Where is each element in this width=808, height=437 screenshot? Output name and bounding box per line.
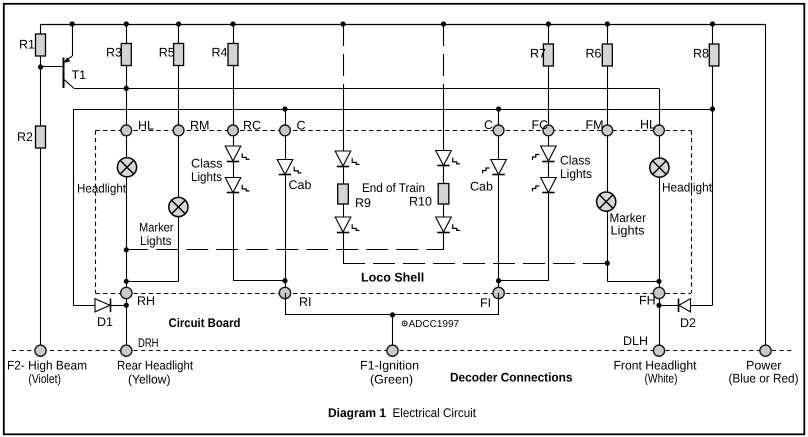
terminal C xyxy=(493,125,504,136)
svg-text:(Yellow): (Yellow) xyxy=(128,372,171,386)
svg-text:Power: Power xyxy=(746,359,781,373)
wire R1-R2-F2 column xyxy=(40,24,42,346)
label Headlight left xyxy=(77,181,126,195)
terminal RC xyxy=(228,125,239,136)
label R8 xyxy=(693,47,709,61)
lamp Marker Lights left xyxy=(169,197,188,216)
node FH top junction xyxy=(656,279,661,284)
terminal FC xyxy=(543,125,554,136)
terminal Power xyxy=(760,345,771,356)
svg-text:Class: Class xyxy=(191,157,223,171)
wire end-of-train left column xyxy=(343,24,345,263)
svg-text:R1: R1 xyxy=(19,38,35,52)
wire RI-FI link to F1 xyxy=(285,293,499,346)
label R6 xyxy=(586,47,602,61)
node EOT left top junction xyxy=(340,21,345,26)
LED class lights right upper xyxy=(533,146,557,162)
terminal FH xyxy=(653,287,664,298)
resistor R5 xyxy=(174,44,184,66)
label Cab left xyxy=(289,178,312,192)
svg-text:HL: HL xyxy=(138,118,154,132)
label R7 xyxy=(530,47,546,61)
svg-text:(White): (White) xyxy=(645,372,678,386)
svg-text:RM: RM xyxy=(190,118,209,132)
label R9 xyxy=(355,196,371,210)
svg-text:(Green): (Green) xyxy=(370,372,413,386)
label RH xyxy=(137,294,155,308)
label R5 xyxy=(159,46,175,60)
node R8 third bus junction xyxy=(710,106,715,111)
svg-text:D1: D1 xyxy=(97,315,113,329)
wire T1 base xyxy=(41,66,63,68)
labels top terminals right xyxy=(484,118,656,133)
svg-text:(Blue or Red): (Blue or Red) xyxy=(729,372,799,386)
terminal F1 xyxy=(387,345,398,356)
wire dashed link RH to EOT right xyxy=(126,249,443,251)
svg-text:R7: R7 xyxy=(530,47,546,61)
node D2-FH junction xyxy=(656,303,661,308)
resistor R6 xyxy=(602,44,612,66)
svg-text:T1: T1 xyxy=(72,68,87,82)
node D1-RH junction xyxy=(124,303,129,308)
node R3 second-bus junction xyxy=(124,86,129,91)
LED cab left xyxy=(277,160,301,175)
resistor R3 xyxy=(121,44,131,66)
wire R7 column xyxy=(548,24,550,130)
node T1 emitter on bus xyxy=(70,21,75,26)
svg-text:C: C xyxy=(297,118,306,132)
terminal FI xyxy=(493,287,504,298)
svg-text:RI: RI xyxy=(299,295,312,309)
terminal DRH xyxy=(121,345,132,356)
node R5 top junction xyxy=(176,21,181,26)
wire R6 column xyxy=(607,24,609,130)
resistor R1 xyxy=(36,34,46,56)
label R4 xyxy=(212,46,228,60)
wire cab right column xyxy=(498,109,500,293)
node FI top junction xyxy=(496,278,501,283)
label R1 xyxy=(19,38,35,52)
wire R5 column xyxy=(178,24,180,130)
terminal C xyxy=(280,125,291,136)
LED end-of-train right lower xyxy=(436,217,460,233)
node R6 top junction xyxy=(605,21,610,26)
wire R3 column xyxy=(126,24,128,130)
svg-text:Headlight: Headlight xyxy=(77,181,126,195)
diode D1 xyxy=(95,299,111,313)
terminal RI xyxy=(279,287,290,298)
LED end-of-train left lower xyxy=(335,217,359,233)
svg-text:HL: HL xyxy=(640,118,656,132)
node marker-RH junction xyxy=(124,279,129,284)
svg-text:DLH: DLH xyxy=(623,334,648,348)
svg-text:R6: R6 xyxy=(586,47,602,61)
transistor T1 xyxy=(64,24,75,88)
label Loco Shell xyxy=(361,271,424,285)
svg-text:R9: R9 xyxy=(355,196,371,210)
LED end-of-train right upper xyxy=(436,151,460,166)
label FI xyxy=(480,296,491,310)
lamp Headlight left xyxy=(117,158,136,177)
resistor R2 xyxy=(36,126,46,148)
node R3 top junction xyxy=(124,21,129,26)
wire third bus (cab feed) xyxy=(74,109,713,111)
svg-text:F2- High Beam: F2- High Beam xyxy=(7,358,87,372)
svg-text:FH: FH xyxy=(639,294,656,308)
caption Rear Headlight xyxy=(117,358,193,386)
label Class Lights left xyxy=(191,157,223,185)
label T1 xyxy=(72,68,87,82)
wire RM marker left column xyxy=(126,130,178,281)
svg-text:ADCC1997: ADCC1997 xyxy=(409,319,460,330)
wire D2 branch to third bus xyxy=(659,305,713,307)
wire end-of-train right column xyxy=(443,24,445,250)
labels top terminals left xyxy=(138,118,306,132)
svg-text:RH: RH xyxy=(137,294,155,308)
LED class lights left upper xyxy=(225,146,249,162)
loco shell dashed outline xyxy=(96,130,692,293)
wire D1 branch from third bus xyxy=(74,109,127,306)
label R3 xyxy=(106,46,122,60)
svg-text:Class: Class xyxy=(560,154,591,168)
wire top supply bus xyxy=(41,24,766,26)
LED class lights left lower xyxy=(225,178,249,193)
wire cab left column xyxy=(285,109,287,293)
svg-text:Lights: Lights xyxy=(191,170,222,184)
svg-text:DRH: DRH xyxy=(138,336,159,350)
svg-text:Cab: Cab xyxy=(470,180,493,194)
wire RC class left column xyxy=(233,130,285,280)
caption Front Headlight xyxy=(614,359,698,386)
node EOT right top junction xyxy=(441,21,446,26)
lamp Marker Lights right xyxy=(597,192,616,211)
resistor R9 xyxy=(338,184,349,204)
wire dashed link EOT left to FM marker xyxy=(343,263,607,265)
diode D2 xyxy=(679,299,691,313)
svg-text:Front Headlight: Front Headlight xyxy=(614,359,698,373)
label FH xyxy=(639,294,656,308)
caption F1 Ignition xyxy=(360,358,419,386)
svg-text:R5: R5 xyxy=(159,46,175,60)
terminal RH xyxy=(121,287,132,298)
svg-text:Diagram 1: Diagram 1 xyxy=(328,406,386,420)
resistor R7 xyxy=(543,44,553,66)
svg-text:R2: R2 xyxy=(17,130,33,144)
label D1 xyxy=(97,315,113,329)
wire second bus (T1 collector) xyxy=(74,88,660,125)
caption Power xyxy=(729,359,799,386)
caption Diagram 1 Electrical Circuit xyxy=(328,406,476,420)
svg-text:R10: R10 xyxy=(409,194,432,208)
svg-text:FI: FI xyxy=(480,296,491,310)
node FM dashed-wire junction xyxy=(605,261,610,266)
node R4 top junction xyxy=(230,21,235,26)
svg-text:Marker: Marker xyxy=(139,220,174,234)
wire FM marker right column xyxy=(607,130,659,281)
wire HL left column xyxy=(126,130,128,345)
resistor R4 xyxy=(228,44,238,66)
svg-text:R4: R4 xyxy=(212,46,228,60)
wire right supply drop to Power xyxy=(765,24,767,346)
svg-text:Cab: Cab xyxy=(289,178,312,192)
label Marker Lights right xyxy=(610,211,647,238)
label D2 xyxy=(680,316,696,330)
lamp Headlight right xyxy=(650,158,669,177)
LED cab right xyxy=(483,160,507,175)
label Class Lights right xyxy=(560,154,592,182)
svg-text:FC: FC xyxy=(532,118,549,132)
label R10 xyxy=(409,194,432,208)
node RI top junction xyxy=(282,278,287,283)
svg-text:Circuit Board: Circuit Board xyxy=(169,316,241,330)
terminal F2 xyxy=(35,345,46,356)
node cab left bus junction xyxy=(282,106,287,111)
terminal DLH xyxy=(653,345,664,356)
node F1 tee junction xyxy=(390,312,395,317)
label ADCC1997 xyxy=(402,319,459,330)
caption F2 High Beam xyxy=(7,358,87,386)
terminal HL xyxy=(121,125,132,136)
svg-text:Lights: Lights xyxy=(140,234,172,248)
svg-text:Decoder Connections: Decoder Connections xyxy=(450,371,573,385)
label Circuit Board xyxy=(169,316,241,330)
node RH dashed-wire junction xyxy=(124,247,129,252)
svg-text:F1-Ignition: F1-Ignition xyxy=(360,358,419,372)
svg-text:FM: FM xyxy=(586,118,604,132)
svg-text:Headlight: Headlight xyxy=(662,181,712,195)
wire R4 column xyxy=(233,24,235,130)
wire FC class right column xyxy=(548,130,550,280)
terminal RM xyxy=(173,125,184,136)
label RI xyxy=(299,295,312,309)
node R7 top junction xyxy=(546,21,551,26)
label DRH xyxy=(138,336,159,350)
svg-text:R8: R8 xyxy=(693,47,709,61)
label Decoder Connections xyxy=(450,371,573,385)
terminal FM xyxy=(602,125,613,136)
label Cab right xyxy=(470,180,493,194)
svg-text:Electrical Circuit: Electrical Circuit xyxy=(393,406,477,420)
svg-text:Loco Shell: Loco Shell xyxy=(361,271,424,285)
terminal HL xyxy=(654,125,665,136)
svg-text:End of Train: End of Train xyxy=(362,181,425,195)
svg-text:(Violet): (Violet) xyxy=(28,372,61,386)
decoder connections dashed line xyxy=(12,350,792,352)
svg-text:Rear Headlight: Rear Headlight xyxy=(117,358,193,372)
label DLH xyxy=(623,334,648,348)
label Marker Lights left xyxy=(139,220,174,247)
label R2 xyxy=(17,130,33,144)
label Headlight right xyxy=(662,181,712,195)
wire R8 column xyxy=(712,24,714,305)
node R8 top junction xyxy=(710,21,715,26)
resistor R10 xyxy=(438,184,449,205)
svg-text:RC: RC xyxy=(243,118,261,132)
node cab right bus junction xyxy=(496,106,501,111)
svg-text:D2: D2 xyxy=(680,316,696,330)
LED end-of-train left upper xyxy=(335,151,359,167)
svg-text:Lights: Lights xyxy=(560,167,592,181)
resistor R8 xyxy=(709,44,719,66)
LED class lights right lower xyxy=(533,178,557,193)
svg-text:Lights: Lights xyxy=(611,224,645,238)
wire HL right column xyxy=(659,130,661,345)
svg-text:C: C xyxy=(484,118,493,132)
node R1-R2 junction xyxy=(38,64,43,69)
svg-text:R3: R3 xyxy=(106,46,122,60)
label End of Train xyxy=(362,181,425,195)
wire class right join xyxy=(499,280,549,282)
